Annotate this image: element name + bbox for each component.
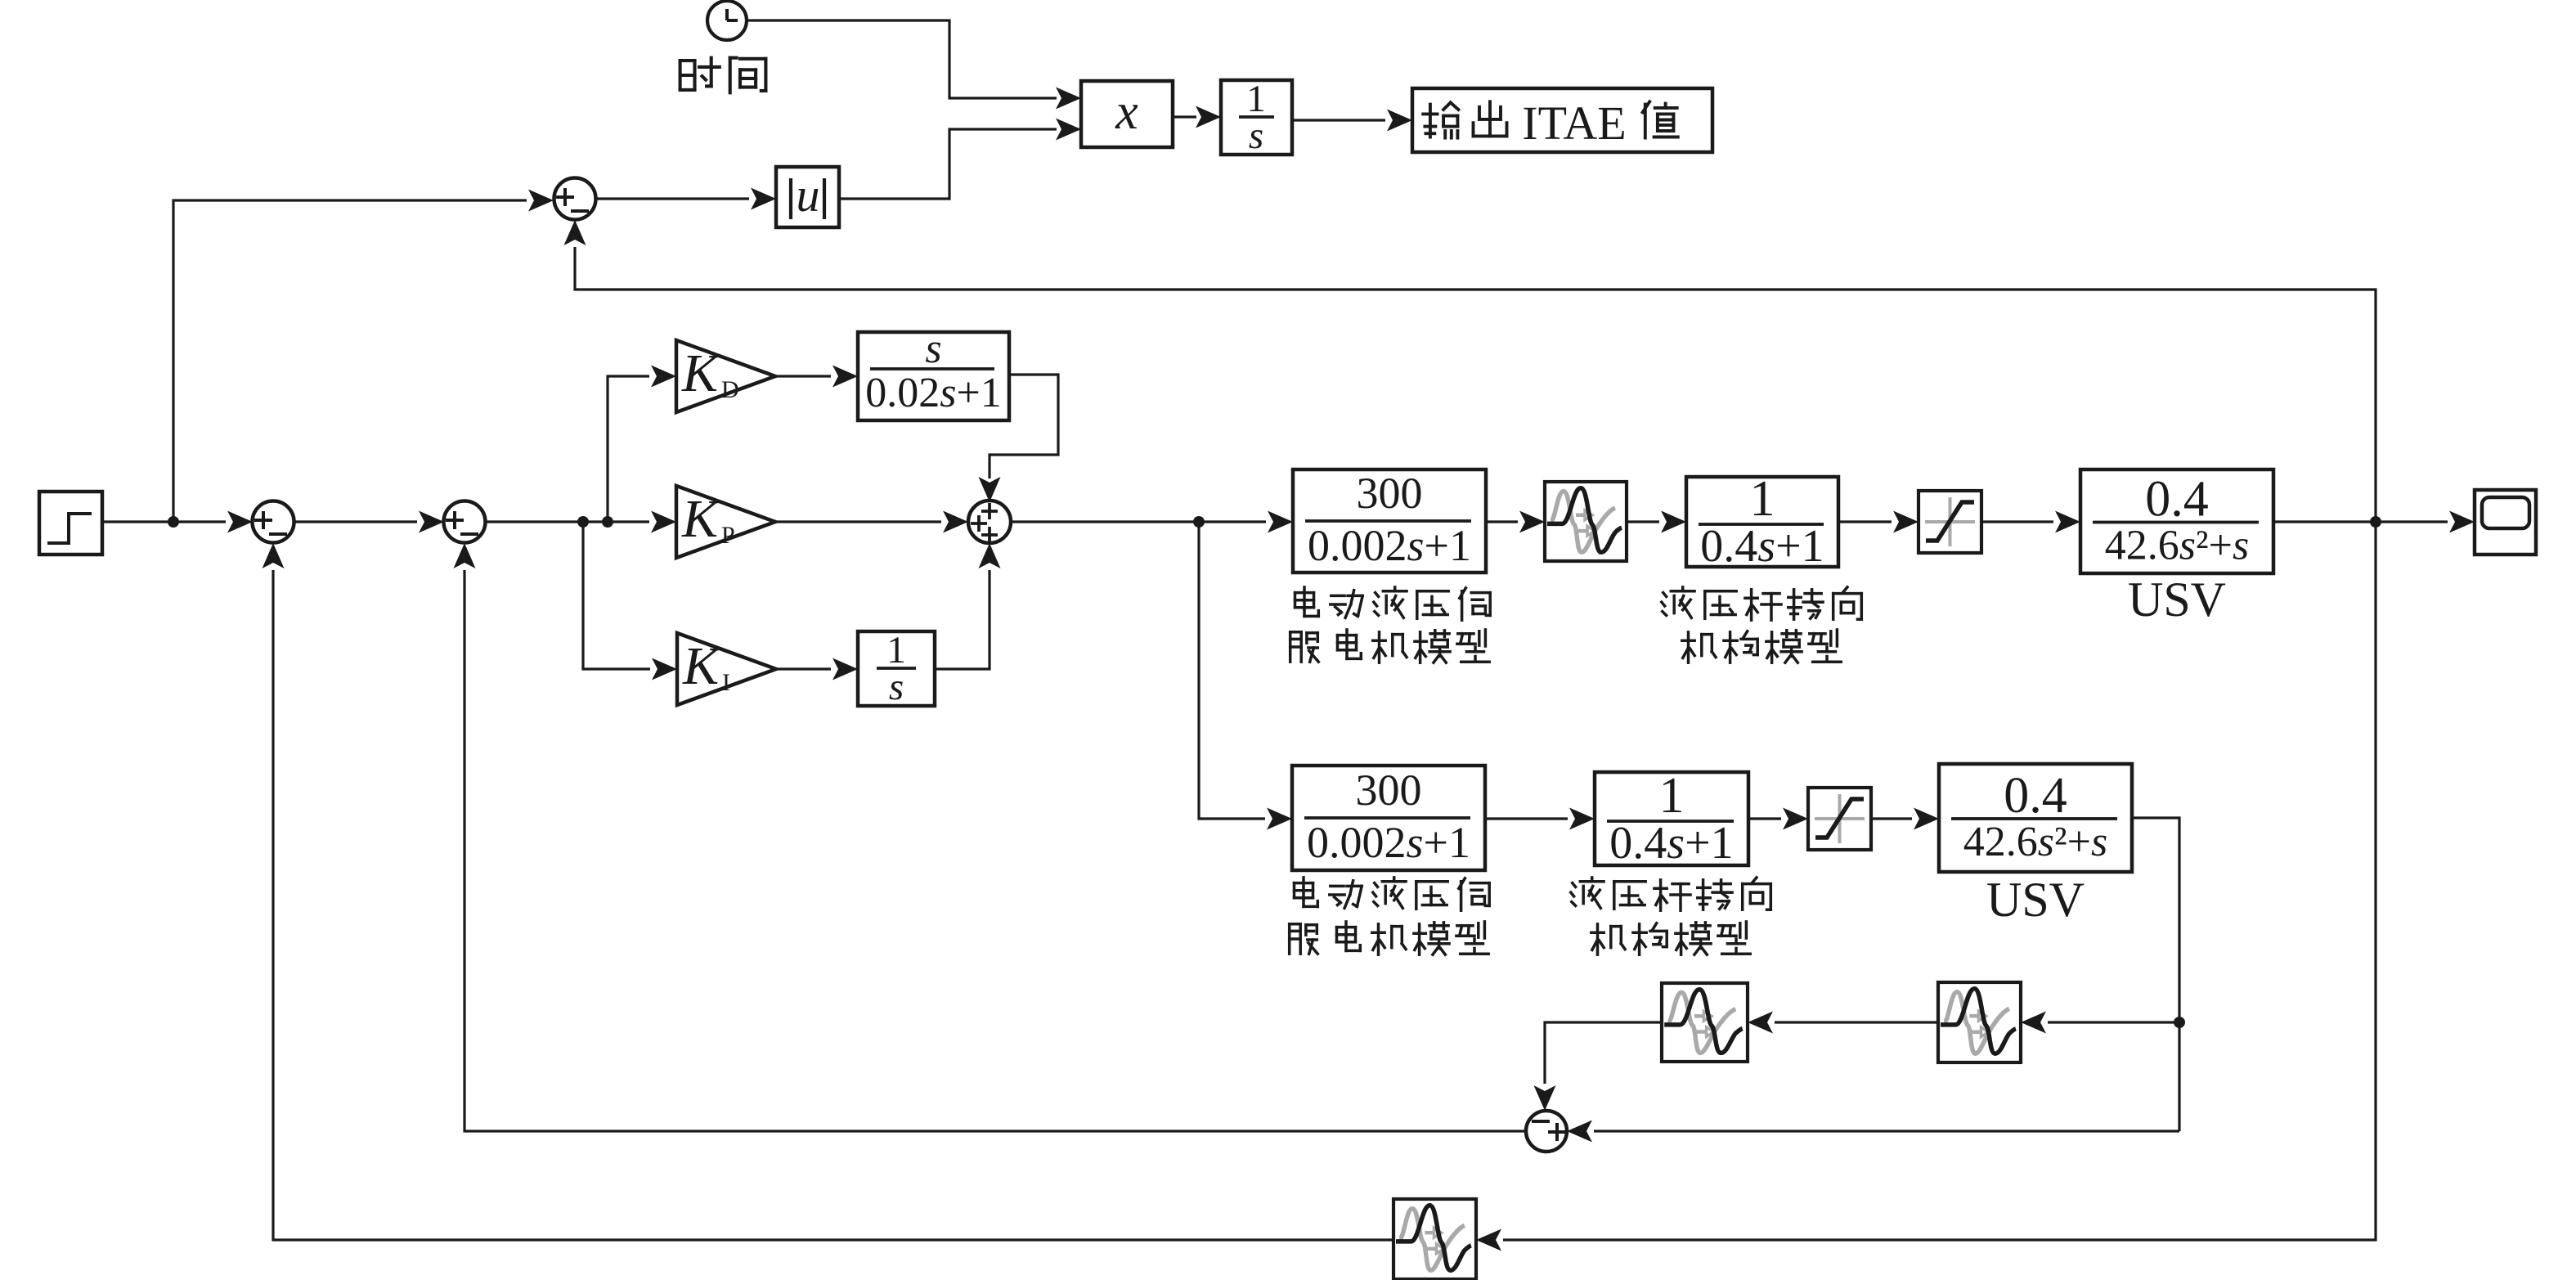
wire USV to scope — [2273, 511, 2475, 533]
wire derivative TF to sum S3 — [979, 375, 1059, 502]
svg-text:K: K — [682, 636, 721, 696]
svg-text:P: P — [721, 522, 735, 549]
scope block — [2475, 490, 2536, 555]
svg-text:USV: USV — [2128, 573, 2226, 627]
abs block |u| — [776, 167, 839, 227]
wire servo to steering #2 — [1485, 808, 1595, 830]
servo motor block 300/(0.002s+1) #2 — [1292, 766, 1485, 870]
wire steering to saturation #2 — [1748, 808, 1808, 830]
saturation block #1 — [1919, 491, 1981, 553]
wire integrator to ITAE display — [1292, 110, 1412, 132]
label 时间 — [680, 58, 766, 93]
wire abs to product — [839, 119, 1081, 200]
label USV #1 — [2128, 573, 2226, 627]
wire delay3 to delay2 — [1748, 1012, 1938, 1034]
label USV #2 — [1986, 873, 2085, 927]
wire to delay #3 — [2021, 1012, 2179, 1034]
svg-text:I: I — [722, 669, 730, 696]
block 输出 ITAE 值 — [1412, 88, 1712, 152]
wire feedback to sum S0 — [564, 220, 2376, 522]
wire KI to integrator — [776, 658, 858, 680]
svg-text:0.002s+1: 0.002s+1 — [1308, 521, 1471, 570]
wire branch to gain KI — [583, 522, 677, 680]
svg-text:s: s — [1249, 115, 1263, 157]
wire sum S0 to abs — [596, 188, 776, 210]
wire steering to saturation #1 — [1838, 511, 1919, 533]
wire right input to sum S4 — [1567, 1121, 2179, 1143]
wire KD to derivative TF — [775, 366, 858, 388]
sum block S2 — [444, 501, 486, 543]
wire sum S2 to gain KP — [486, 511, 676, 533]
sum block S4 — [1526, 1111, 1567, 1152]
integrator block 1/s (PID) — [858, 629, 935, 708]
wire USV2 down to feedback — [2132, 818, 2185, 1131]
svg-text:USV: USV — [1986, 873, 2085, 927]
svg-text:0.4s+1: 0.4s+1 — [1609, 818, 1733, 869]
sum block S1 — [253, 501, 294, 543]
wire servo to delay #1 — [1486, 511, 1545, 533]
svg-text:K: K — [681, 489, 720, 549]
USV block 0.4/(42.6s2+s) #2 — [1939, 764, 2132, 872]
svg-text:300: 300 — [1357, 469, 1423, 518]
svg-text:42.6s²+s: 42.6s²+s — [2105, 523, 2249, 569]
svg-text:s: s — [925, 326, 941, 372]
label 电动液压伺服电机模型 #1 — [1290, 587, 1491, 662]
steering block 1/(0.4s+1) #2 — [1595, 768, 1748, 869]
svg-text:42.6s²+s: 42.6s²+s — [1963, 819, 2107, 865]
svg-text:K: K — [681, 344, 720, 403]
svg-text:1: 1 — [1659, 768, 1685, 824]
wire sum S1 to sum S2 — [294, 511, 444, 533]
label 液压杆转向机构模型 #1 — [1662, 587, 1862, 662]
svg-text:1: 1 — [1750, 471, 1775, 527]
label 液压杆转向机构模型 #2 — [1571, 878, 1771, 954]
servo motor block 300/(0.002s+1) #1 — [1293, 469, 1486, 573]
gain block KD — [676, 340, 775, 412]
sum block S3 — [968, 501, 1011, 543]
label 电动液压伺服电机模型 #2 — [1290, 878, 1490, 954]
wire bottom feedback from output — [1476, 522, 2376, 1251]
wire sum S4 to sum S2 — [454, 543, 1527, 1131]
wire delay4 to sum S1 — [263, 543, 1394, 1240]
wire integrator to sum S3 — [935, 543, 1001, 669]
wire error to sum S0 — [173, 190, 554, 523]
wire sum S3 to servo TF 1 — [1011, 511, 1293, 533]
svg-text:0.4: 0.4 — [2004, 768, 2067, 824]
integrator block 1/s (ITAE) — [1221, 78, 1292, 157]
gain block KP — [676, 486, 775, 558]
svg-text:s: s — [889, 666, 904, 708]
wire branch to servo TF 2 — [1199, 522, 1292, 830]
wire saturation to USV #2 — [1871, 808, 1939, 830]
wire saturation to USV TF #1 — [1981, 511, 2080, 533]
svg-text:u: u — [797, 168, 820, 222]
svg-text:300: 300 — [1356, 766, 1422, 815]
USV block 0.4/(42.6s2+s) #1 — [2080, 469, 2273, 573]
saturation block #2 — [1808, 788, 1871, 850]
sum junction S0 — [554, 178, 596, 220]
gain block KI — [677, 633, 776, 705]
svg-text:0.4: 0.4 — [2145, 472, 2209, 528]
wire product to integrator — [1173, 106, 1221, 128]
svg-text:ITAE: ITAE — [1522, 97, 1626, 150]
wire clock to product — [747, 20, 1081, 110]
wire delay2 to sum S4 — [1534, 1022, 1663, 1111]
wire step to sum S1 — [102, 511, 253, 533]
transport delay block #1 — [1545, 482, 1627, 561]
transport delay block #4 — [1393, 1199, 1476, 1279]
step input block — [39, 492, 102, 555]
wire delay to steering TF #1 — [1627, 511, 1686, 533]
wire branch to gain KD — [608, 366, 676, 523]
svg-text:0.002s+1: 0.002s+1 — [1307, 818, 1470, 867]
transport delay block #2 — [1662, 983, 1748, 1062]
wire KP path through sum S3 — [775, 511, 968, 533]
clock source block — [707, 1, 747, 40]
steering block 1/(0.4s+1) #1 — [1686, 471, 1838, 572]
transport delay block #3 — [1938, 982, 2021, 1062]
product block x — [1081, 81, 1173, 147]
svg-text:D: D — [721, 376, 739, 403]
svg-text:0.4s+1: 0.4s+1 — [1700, 521, 1824, 572]
svg-text:0.02s+1: 0.02s+1 — [865, 370, 1002, 416]
svg-text:x: x — [1115, 84, 1138, 140]
derivative block s/(0.02s+1) — [858, 326, 1009, 420]
